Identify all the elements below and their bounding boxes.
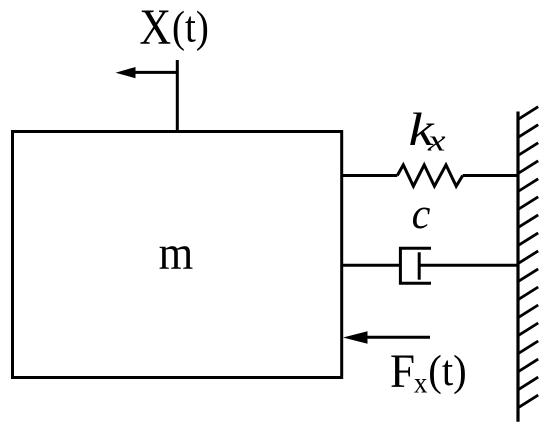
wire X(t) arrow shaft [134,71,177,74]
damper c cylinder [400,248,431,283]
node stem X(t) (vertical line above mass) [176,60,179,132]
label X(t) [139,0,171,56]
label c [412,191,431,239]
label kx [409,104,435,155]
wall hatching [518,107,538,408]
wire force arrow shaft [367,336,430,339]
spring kx (zigzag) [397,165,462,186]
svg-text:(t): (t) [428,347,466,396]
arrowhead X(t) [116,67,136,78]
arrowhead Fx(t) [343,331,368,344]
wire spring left lead [342,174,398,177]
wire damper rod to wall [419,264,518,267]
label Fx(t) [390,346,415,398]
label m [159,226,194,279]
svg-text:m: m [159,226,194,279]
mass m (rectangle) [13,132,342,378]
svg-text:c: c [412,191,431,239]
wire spring right lead [463,174,518,177]
svg-text:F: F [390,346,415,398]
damper c piston [418,252,421,279]
svg-text:x: x [427,123,446,158]
svg-text:(t): (t) [172,2,209,52]
svg-text:X: X [139,0,171,56]
wire damper left lead [342,264,401,267]
svg-text:x: x [414,367,427,399]
wall (vertical line) [516,112,519,422]
